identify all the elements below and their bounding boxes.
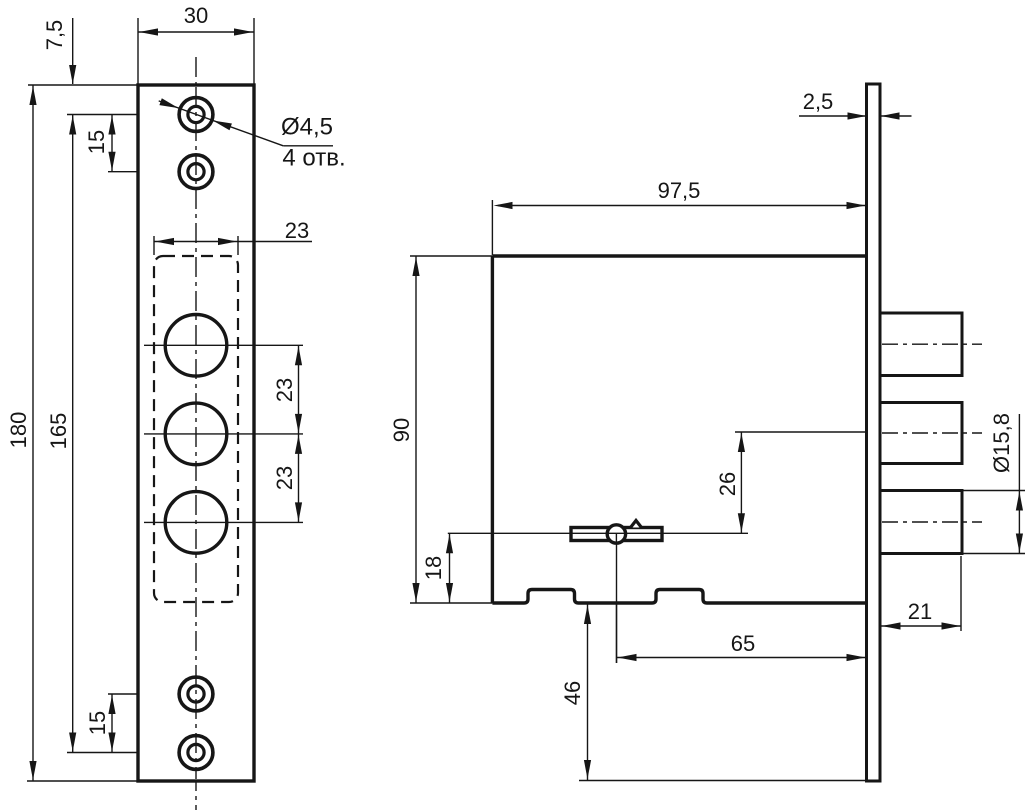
label diameter 4,5 [281, 113, 333, 140]
lock faceplate front view [138, 85, 254, 781]
svg-text:21: 21 [908, 599, 932, 624]
dimension 23 top [154, 218, 312, 255]
extension line body top left [410, 255, 492, 257]
centerline inside plate [195, 87, 197, 779]
dimension 90 [389, 256, 420, 603]
screw hole 2 [179, 155, 213, 189]
extension line circle1 level [144, 344, 303, 346]
extension line bottom of faceplate [579, 780, 867, 782]
svg-text:7,5: 7,5 [42, 20, 67, 51]
svg-text:23: 23 [272, 378, 297, 402]
dimension 7,5 [42, 18, 76, 84]
dimension diameter 15,8 [962, 413, 1025, 553]
extension line body bottom left [410, 602, 492, 604]
svg-text:Ø15,8: Ø15,8 [989, 413, 1014, 473]
lever axis vertical [616, 533, 618, 663]
dimension 97,5 [494, 178, 867, 209]
bolt 3 [878, 491, 962, 554]
svg-text:26: 26 [715, 472, 740, 496]
label 4 holes [282, 144, 345, 171]
lock body side view [492, 256, 866, 603]
svg-text:65: 65 [731, 631, 755, 656]
bolt 2 centerline [882, 432, 982, 434]
svg-text:90: 90 [389, 418, 414, 442]
svg-text:23: 23 [285, 218, 309, 243]
svg-text:180: 180 [6, 412, 31, 449]
dimension 15 bottom [85, 694, 116, 753]
key cam lever [571, 521, 662, 545]
extension line circle3 level [144, 521, 303, 523]
svg-text:23: 23 [272, 466, 297, 490]
dimension 23 circles 1-2 [272, 345, 302, 434]
extension line plate bottom [27, 780, 138, 782]
dimension 21 [881, 556, 961, 631]
dimension 46 [560, 604, 591, 780]
dimension 23 circles 2-3 [272, 434, 302, 523]
extension line lever level [448, 532, 748, 534]
svg-text:Ø4,5: Ø4,5 [281, 113, 333, 140]
cylinder hole 1 [165, 315, 227, 377]
extension line bolt2 center [735, 431, 867, 433]
bolt 1 centerline [882, 343, 982, 345]
dimension 65 [617, 631, 866, 661]
svg-text:165: 165 [46, 413, 71, 450]
dimension 26 [715, 432, 745, 533]
centerline of front view [195, 57, 197, 810]
extension line hole1 level [67, 114, 178, 116]
extension line circle2 level [144, 433, 303, 435]
screw hole 1 [179, 98, 213, 132]
svg-text:2,5: 2,5 [803, 89, 834, 114]
dimension 30 [138, 3, 254, 36]
faceplate side view [867, 84, 881, 781]
extension line plate right edge up [253, 18, 255, 84]
dimension 180 [6, 85, 37, 781]
hidden lock case outline (dashed) [154, 256, 238, 602]
dimension 18 [421, 533, 453, 603]
dimension 2,5 [799, 89, 912, 120]
svg-text:46: 46 [560, 681, 585, 705]
extension line hole2 level [108, 171, 178, 173]
extension line plate left edge up [137, 18, 139, 84]
svg-text:97,5: 97,5 [658, 178, 701, 203]
svg-text:18: 18 [421, 556, 446, 580]
bolt 1 [878, 313, 962, 376]
screw hole 4 [179, 736, 213, 770]
cylinder hole 3 [165, 492, 227, 554]
dimension 165 [46, 115, 76, 753]
extension line plate top [28, 84, 138, 86]
extension line hole3 level [108, 693, 178, 695]
leader line for hole diameter [159, 98, 333, 146]
extension line 65 left [616, 604, 618, 663]
svg-text:30: 30 [184, 3, 208, 28]
screw hole 3 [179, 677, 213, 711]
svg-text:4 отв.: 4 отв. [282, 144, 345, 171]
svg-text:15: 15 [85, 711, 110, 735]
dimension 15 top [84, 115, 116, 172]
bolt 2 [878, 403, 962, 464]
extension line body left up [491, 200, 493, 255]
cylinder hole 2 [165, 403, 227, 465]
bolt 3 centerline [882, 521, 982, 523]
svg-text:15: 15 [84, 130, 109, 154]
extension line hole4 level [67, 752, 178, 754]
